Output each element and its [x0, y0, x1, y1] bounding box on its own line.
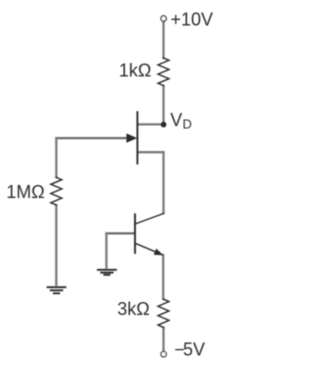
node VD dot: [161, 122, 167, 128]
BJT Q2 emitter lead: [135, 243, 162, 255]
ground G1: [48, 287, 66, 293]
BJT Q2 collector lead: [135, 214, 164, 225]
resistor R3 3kOhm: [158, 299, 169, 327]
wire R1 to node VD: [162, 85, 164, 124]
BJT Q2 base bar: [134, 214, 136, 253]
terminal +10V: [161, 16, 166, 21]
svg-text:1MΩ: 1MΩ: [6, 182, 44, 202]
svg-text:5V: 5V: [183, 340, 205, 360]
svg-text:V: V: [170, 110, 182, 130]
JFET Q1 gate arrow: [126, 133, 137, 142]
label -5V: [174, 340, 205, 360]
svg-text:+10V: +10V: [171, 9, 214, 29]
wire BJT emitter to R3: [162, 254, 164, 300]
svg-text:D: D: [183, 117, 192, 132]
wire R2 to ground G1: [55, 205, 57, 287]
resistor R1 1kOhm: [158, 58, 169, 86]
JFET Q1 channel bar: [136, 112, 138, 163]
resistor R2 1MOhm: [51, 177, 62, 205]
terminal -5V: [161, 352, 166, 357]
wire base to ground G2: [105, 232, 107, 269]
JFET Q1 drain lead: [137, 123, 163, 125]
JFET Q1 source lead: [137, 151, 164, 153]
wire R3 to bottom terminal: [162, 327, 164, 351]
BJT Q2 base wire: [105, 232, 135, 234]
label VD: [170, 110, 192, 131]
JFET Q1 gate wire: [55, 137, 129, 139]
BJT Q2 emitter arrow: [154, 249, 164, 256]
wire JFET source to BJT collector corner: [162, 151, 164, 214]
svg-text:1kΩ: 1kΩ: [119, 60, 151, 80]
wire gate corner to R2: [55, 137, 57, 178]
svg-text:3kΩ: 3kΩ: [117, 299, 149, 319]
wire top terminal to R1: [162, 21, 164, 59]
ground G2: [98, 270, 116, 275]
